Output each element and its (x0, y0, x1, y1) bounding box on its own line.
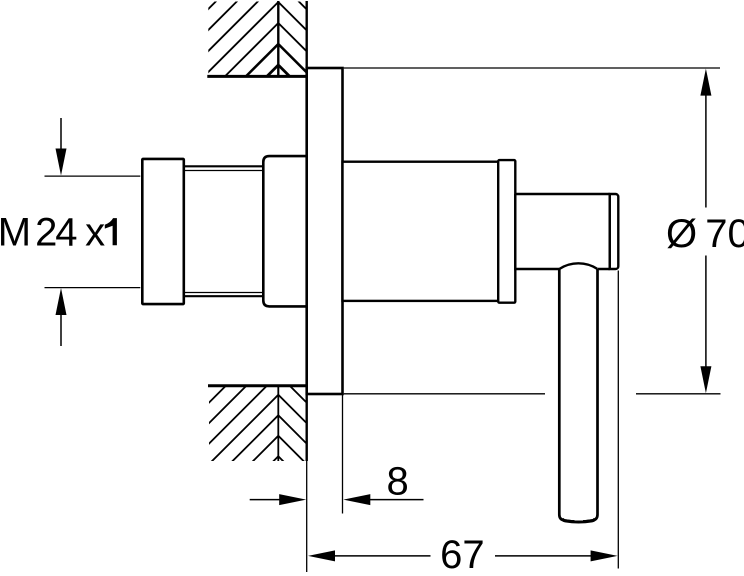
handle hub end cap (610, 194, 619, 269)
dimension M24x1: bottom arrow (60, 311, 62, 346)
svg-text:8: 8 (387, 459, 409, 503)
thread section M24 (185, 165, 264, 167)
wall section top: wall bottom surface line (207, 75, 306, 78)
wall section top: hatch left family (118, 0, 278, 183)
dimension 8: left arrow (250, 499, 284, 501)
lever bottom inner rim line (575, 519, 584, 521)
lever handle arm (559, 269, 597, 522)
dimension 67: right extension line (617, 271, 619, 569)
dimension M24x1: extension lines (45, 175, 141, 177)
ring at sleeve end (498, 160, 515, 303)
dimension D70: top extension line (344, 67, 720, 69)
dimension D70: vertical dimension line with arrows (705, 90, 707, 208)
dimension 67: left arrow (308, 550, 335, 561)
dimension 8: right extension line (342, 395, 344, 514)
wall section top: hatch right family (278, 0, 358, 104)
dimension 8: right arrow (365, 499, 424, 501)
dimension 67: right arrow (495, 555, 594, 557)
handle hub cylinder (515, 194, 609, 269)
svg-text:M24x: M24x (0, 210, 105, 254)
left end cap of nipple (142, 159, 184, 304)
valve flange cylinder behind wall (263, 156, 307, 306)
wall section bottom: hatch divider (277, 386, 279, 461)
wall section bottom: wall top surface line (208, 384, 307, 387)
dimension M24x1: top arrow (60, 118, 62, 152)
dimension D70: bottom extension line (344, 393, 545, 395)
wall section top: hatch divider (277, 1, 279, 76)
wall face vertical line (also extension line for 8 and 67) (306, 1, 308, 461)
escutcheon (wall rosette, side view) (307, 68, 343, 394)
wall section bottom: hatch right family (278, 354, 358, 476)
wall section bottom: hatch left family (118, 333, 278, 555)
svg-text:Ø70: Ø70 (666, 212, 744, 256)
valve sleeve cylinder (343, 162, 499, 301)
handle hub bump over lever joint (559, 263, 597, 269)
svg-text:67: 67 (440, 533, 485, 576)
